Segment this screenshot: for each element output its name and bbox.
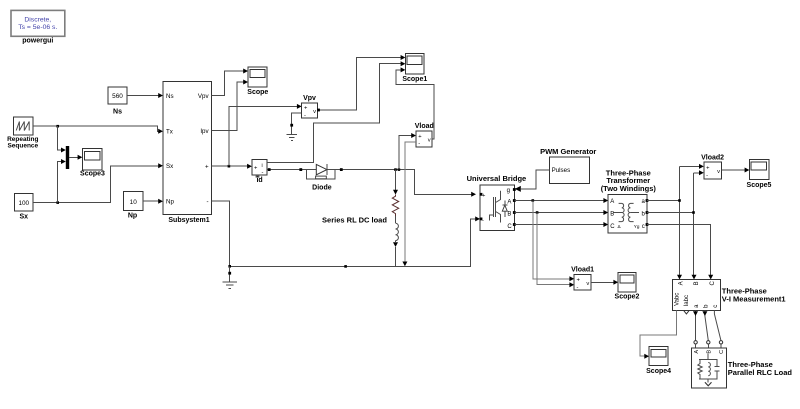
svg-text:Np: Np [128,213,137,220]
svg-text:v: v [717,169,720,175]
three-phase parallel RLC load [692,344,793,388]
voltage measurement Vload2 [701,155,724,179]
svg-text:C: C [710,280,716,285]
svg-text:c: c [642,224,645,230]
wire Vpv output to Scope input 1 [212,69,248,96]
wire 10 to Np [143,199,163,204]
svg-text:A: A [678,281,684,285]
svg-text:Scope3: Scope3 [80,171,105,178]
wire Vload - down to DC bus [402,142,416,266]
three-phase V-I measurement1 [672,280,785,311]
wire transformer c to V-I C [647,225,713,280]
svg-text:-: - [577,284,579,290]
wire V-I b to RLC load B [702,310,708,340]
svg-text:PWM Generator: PWM Generator [540,147,596,156]
svg-text:Ts = 5e-06 s.: Ts = 5e-06 s. [18,24,57,31]
svg-text:Scope1: Scope1 [402,76,427,83]
svg-text:Discrete,: Discrete, [24,17,51,24]
svg-text:Series RL DC load: Series RL DC load [322,216,387,225]
constant Sx (100) [15,194,33,221]
svg-text:10: 10 [130,199,138,206]
svg-text:Vpv: Vpv [303,95,316,102]
svg-text:v: v [428,137,431,143]
wire branch to mux input 1 [58,126,66,152]
wire Vpv v output to Scope1 input 1 [317,55,405,111]
ground (near Vpv) [287,131,297,141]
wire id i output to Scope1 input 2 [267,61,406,162]
svg-text:Pulses: Pulses [552,167,571,174]
PWM generator block [540,147,596,184]
svg-text:C: C [719,350,725,354]
wire V-I a to RLC load A [693,310,698,340]
wire id output through diode to bridge + (DC rail) [267,168,476,197]
wire transformer a to Vload2 + and V-I A [647,164,704,280]
svg-text:v: v [313,109,316,115]
svg-text:-: - [706,173,708,179]
svg-text:Ns: Ns [166,93,174,100]
svg-text:Yg: Yg [634,224,640,229]
svg-text:+: + [205,164,209,171]
svg-text:powergui: powergui [22,38,53,45]
ground (bottom) [223,266,237,288]
wire Vload v output to Scope1 input 3 [396,67,434,138]
svg-text:-: - [262,170,264,176]
unconnected Iabc output arrow [684,311,689,314]
svg-text:c: c [713,305,719,308]
voltage measurement Vload1 [571,267,594,291]
wire Vload2 v to Scope5 [721,168,749,173]
wire 560 to Ns [127,93,163,98]
svg-text:Scope2: Scope2 [615,293,640,300]
svg-text:B: B [694,281,700,285]
svg-text:-: - [304,112,306,118]
svg-text:id: id [256,177,262,184]
wire bridge B to transformer B [514,210,608,215]
voltage measurement Vload [415,123,434,147]
svg-text:i: i [262,163,263,169]
universal bridge U1 [467,174,527,231]
wire PWM pulses to bridge g [515,170,550,192]
svg-text:Ipv: Ipv [200,128,209,135]
svg-text:Sx: Sx [20,213,29,220]
svg-text:A: A [610,199,614,205]
svg-text:g: g [507,188,510,194]
svg-text:Δ: Δ [618,224,621,229]
wire branch to mux input 2 [58,159,66,203]
svg-text:V-I Measurement1: V-I Measurement1 [722,295,786,304]
svg-text:Sx: Sx [166,163,174,170]
subsystem Subsystem1 [163,82,212,224]
wire V-I c to RLC load C [714,310,721,340]
svg-text:C: C [610,224,615,230]
svg-text:100: 100 [18,200,29,207]
svg-text:Sequence: Sequence [7,143,38,150]
svg-text:Vload: Vload [415,123,434,130]
three-phase transformer (two windings) [601,169,657,233]
svg-text:Subsystem1: Subsystem1 [168,217,209,224]
svg-text:Vpv: Vpv [198,93,210,100]
wire bridge C to transformer C [514,222,608,227]
scope Scope5 [747,160,772,190]
wire subsystem - output to DC bus and bridge - [212,201,480,268]
wire 100 to Sx [33,163,163,204]
svg-text:C: C [507,224,512,230]
wire bridge A to transformer A [514,198,608,203]
svg-text:B: B [507,212,511,218]
port circle B [707,341,710,344]
wire A branch down to Vload1 + [533,201,574,282]
svg-text:-: - [418,141,420,147]
svg-text:-: - [207,199,209,206]
svg-text:A: A [507,200,511,206]
mux [66,146,69,169]
constant Ns (560) [108,87,127,116]
svg-text:Iabc: Iabc [684,295,690,306]
wire DC rail to Vload + [399,133,416,170]
svg-text:B: B [707,350,713,354]
wire Vload1 v to Scope2 [591,280,618,285]
svg-text:Vabc: Vabc [675,293,681,306]
current measurement id [252,159,267,184]
port circle A [694,341,697,344]
wire transformer b to Vload2 - and V-I B [647,170,704,279]
port circle C [719,341,722,344]
svg-text:Vload1: Vload1 [571,267,594,274]
svg-text:Np: Np [166,199,174,206]
scope Scope4 [646,347,671,375]
svg-text:Parallel RLC Load: Parallel RLC Load [728,368,793,377]
wire branch to Vpv + input [229,104,302,166]
constant Np (10) [124,192,143,220]
svg-text:Vload2: Vload2 [701,155,724,162]
svg-text:560: 560 [112,93,123,100]
svg-text:A: A [694,350,700,354]
wire B branch down to Vload1 - [537,213,574,288]
wire Vpv - to ground [290,113,301,131]
svg-text:Scope5: Scope5 [747,182,772,189]
voltage measurement Vpv [302,95,318,119]
scope Scope3 [80,149,105,178]
scope Scope [247,67,268,96]
diode D [306,164,335,191]
svg-text:Diode: Diode [312,185,332,192]
powergui block [11,10,65,44]
wire Ipv output to Scope input 2 [212,80,248,131]
svg-text:+: + [418,134,422,140]
svg-text:Ns: Ns [113,109,122,116]
scope Scope1 [402,53,427,83]
repeating sequence block [7,117,38,150]
scope Scope2 [615,273,640,301]
wire mux to Scope3 [69,155,82,160]
svg-text:Tx: Tx [166,129,174,136]
svg-text:Scope: Scope [247,89,268,96]
svg-text:(Two Windings): (Two Windings) [601,184,657,193]
wire subsystem + output to id [212,164,252,169]
svg-text:Universal Bridge: Universal Bridge [467,174,527,183]
svg-text:v: v [586,281,589,287]
wire V-I Vabc output to Scope4 [640,310,677,358]
series RL DC load [322,170,399,267]
svg-text:Scope4: Scope4 [646,368,671,375]
wire repeating sequence to Tx [33,125,163,134]
